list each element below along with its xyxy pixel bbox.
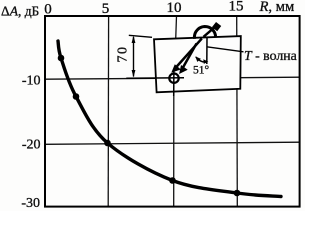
svg-text:-20: -20 [22,138,41,153]
vertical reference line [206,38,208,64]
gridline y=-10 [45,77,300,79]
svg-text:5: 5 [102,1,110,17]
data point 4 [169,177,176,184]
data point 2 [73,93,80,100]
dimension arrowhead down [132,70,136,78]
svg-text:R, мм: R, мм [259,0,295,15]
transducer knob [212,22,221,31]
dimension line 70 [133,37,135,77]
dimension top extension line [129,35,152,37]
svg-text:70: 70 [115,46,130,63]
transducer stem [204,28,215,37]
svg-text:-10: -10 [22,74,41,89]
leader line to T-wave label [207,47,244,52]
plot border frame [45,16,300,207]
defect depth extension line [126,77,184,80]
svg-text:15: 15 [229,0,244,15]
svg-text:10: 10 [167,0,182,16]
data point 1 [58,55,65,62]
attenuation curve [58,41,281,197]
inset specimen rectangle [154,36,241,92]
angle arc arrowhead right [203,59,208,64]
svg-text:-30: -30 [21,196,40,211]
beam arrowhead A [171,64,181,72]
data point 3 [104,140,111,147]
beam ray B [181,44,197,72]
svg-text:T - волна: T - волна [244,48,297,63]
dimension arrowhead up [132,36,136,44]
gridline x=10 [174,16,177,207]
angle arc [196,57,207,62]
data point 5 [234,190,241,197]
defect centerline vertical [173,70,175,96]
angle arc arrowhead left [195,56,201,62]
gridline x=5 [107,16,109,207]
beam arrowhead B [179,65,188,74]
gridline x=15 [236,16,239,207]
transducer dome [194,27,215,39]
svg-text:51°: 51° [193,65,210,77]
beam ray A [175,39,202,69]
svg-text:ΔA, дБ: ΔA, дБ [1,4,39,19]
defect circle [169,74,178,83]
gridline y=-20 [45,142,300,144]
